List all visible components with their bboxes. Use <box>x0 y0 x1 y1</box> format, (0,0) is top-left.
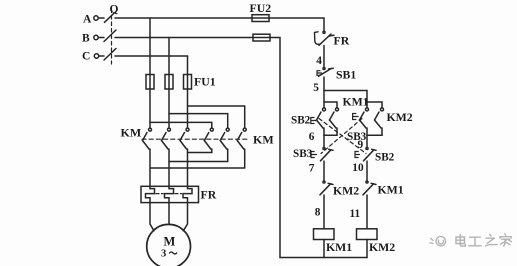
KM banks linkage dashed <box>142 138 249 140</box>
fuse FU2 pole B <box>253 34 270 41</box>
wire phase3 to right bank contact 3 <box>188 106 245 128</box>
FR control contact NC <box>315 31 335 45</box>
wire FR to SB1 <box>323 46 325 68</box>
wire FR to motor line3 <box>183 203 187 231</box>
wire SB1 to node 5 <box>323 77 325 91</box>
wire node6 to SB3 NC <box>323 135 325 147</box>
svg-text:KM: KM <box>253 133 274 147</box>
switch Q linkage dashed <box>111 9 113 64</box>
control rail node5 <box>324 90 367 92</box>
KM1 aux contact NO <box>330 108 339 135</box>
contactor KM left bank contact 2 <box>162 128 171 149</box>
svg-text:KM1: KM1 <box>343 95 369 109</box>
KM2 aux branch tap <box>367 102 382 108</box>
fuse FU1 pole 2 <box>165 75 173 90</box>
wire left bank 2 down <box>168 149 170 186</box>
wire coil KM2 to bottom rail <box>366 240 368 258</box>
svg-text:9: 9 <box>358 139 364 151</box>
right column from rail <box>366 91 368 103</box>
wire drop phase C to FU1 <box>187 56 189 75</box>
svg-text:4: 4 <box>316 55 322 67</box>
wire FU1 pole2 down to KM <box>168 89 170 128</box>
svg-text:A: A <box>83 14 92 26</box>
wire SB3 to node 9 <box>366 128 368 135</box>
wire SB2NC to KM1 NC <box>366 161 368 181</box>
KM2 aux contact NO <box>375 108 384 135</box>
svg-text:SB1: SB1 <box>336 68 356 82</box>
wire phase1 to right bank contact 1 <box>150 122 212 127</box>
wire right contact1 to motor line3 <box>188 149 212 153</box>
wire KM1NC to coil KM2 <box>366 195 368 229</box>
wire FU1 pole3 down to KM <box>187 89 189 128</box>
svg-text:SB3: SB3 <box>293 148 313 160</box>
svg-text:FU2: FU2 <box>250 1 272 15</box>
wire FU2A to control column <box>269 18 324 31</box>
watermark text gong <box>469 237 481 246</box>
watermark text jia <box>500 234 511 246</box>
FR heater element 3 <box>183 186 192 202</box>
interlock KM2 NC contact <box>320 181 333 195</box>
svg-text:3: 3 <box>161 249 166 260</box>
mechanical link SB2 dashed <box>319 119 366 154</box>
wire SB2 to node 6 <box>323 128 325 135</box>
wire right contact2 to motor line2 <box>169 149 228 162</box>
wire phase B horizontal <box>115 37 253 39</box>
node 9 wire <box>367 134 382 136</box>
FR heater linkage dashes <box>156 193 163 195</box>
terminal B <box>82 32 104 44</box>
switch Q blade phase B <box>104 30 116 42</box>
svg-text:8: 8 <box>315 207 321 219</box>
svg-text:FR: FR <box>334 34 350 48</box>
svg-text:11: 11 <box>350 208 361 220</box>
fuse FU2 pole A <box>252 15 269 22</box>
svg-text:SB2: SB2 <box>375 152 395 164</box>
svg-text:6: 6 <box>309 131 315 143</box>
start button SB2 NO <box>311 91 326 129</box>
wire node9 to SB2 NC <box>366 135 368 147</box>
wire FR to motor line1 <box>150 203 154 231</box>
switch Q blade phase C <box>104 49 116 61</box>
wire phase A horizontal <box>115 17 252 19</box>
motor M circle <box>147 224 191 266</box>
svg-text:10: 10 <box>352 162 364 174</box>
bottom rail <box>280 257 367 259</box>
fuse FU1 pole 1 <box>146 75 154 90</box>
wire SB3NC to KM2 NC <box>323 161 325 181</box>
wire FU2B to control return <box>270 38 280 258</box>
svg-text:KM2: KM2 <box>387 110 413 124</box>
svg-text:5: 5 <box>313 82 319 94</box>
stop button SB1 NC <box>317 67 333 76</box>
wire phase2 to right bank contact 2 <box>169 114 228 128</box>
contactor KM left bank contact 3 <box>180 128 189 149</box>
wire right contact3 to motor line1 <box>150 149 245 168</box>
svg-text:FR: FR <box>201 188 217 202</box>
watermark text dian <box>456 235 465 247</box>
watermark logo <box>430 237 446 246</box>
wire left bank 3 down <box>187 149 189 186</box>
watermark text zhi <box>486 234 498 246</box>
terminal C <box>82 50 104 62</box>
button SB3 NC contact <box>311 147 333 160</box>
wire drop phase A to FU1 <box>149 18 151 75</box>
KM1 aux contact branch tap <box>324 102 337 108</box>
mechanical link SB3 dashed <box>321 119 362 154</box>
wire left bank 1 down <box>149 149 151 186</box>
wire FR to motor line2 <box>168 203 170 225</box>
start button SB3 NO <box>353 102 369 128</box>
svg-text:M: M <box>164 235 176 249</box>
terminal A <box>83 14 104 26</box>
thermal relay FR heater box <box>141 186 199 202</box>
svg-text:C: C <box>82 50 90 62</box>
svg-text:KM2: KM2 <box>333 184 359 198</box>
wire drop phase B to FU1 <box>168 38 170 75</box>
FR heater element 2 <box>165 186 174 202</box>
contactor KM right bank contact 1 <box>204 128 213 149</box>
svg-text:KM1: KM1 <box>378 183 404 197</box>
node 6 wire <box>324 134 337 136</box>
FR heater element 1 <box>146 186 155 202</box>
svg-text:7: 7 <box>309 162 315 174</box>
wire coil KM1 to bottom rail <box>323 240 325 258</box>
coil KM2 <box>357 229 378 240</box>
interlock KM1 NC contact <box>363 181 376 195</box>
coil KM1 <box>314 229 335 240</box>
fuse FU1 pole 3 <box>184 75 192 90</box>
svg-text:FU1: FU1 <box>194 75 216 89</box>
contactor KM right bank contact 3 <box>237 128 246 149</box>
svg-text:Q: Q <box>110 4 119 16</box>
switch Q blade phase A <box>105 13 115 22</box>
contactor KM left bank contact 1 <box>143 128 152 149</box>
wire KM2NC to coil KM1 <box>323 195 325 229</box>
button SB2 NC contact <box>355 147 376 160</box>
contactor KM right bank contact 2 <box>220 128 229 149</box>
svg-text:KM: KM <box>121 126 142 140</box>
svg-text:KM2: KM2 <box>369 240 395 254</box>
svg-text:KM1: KM1 <box>326 240 352 254</box>
wire FU1 pole1 down to KM <box>149 89 151 128</box>
svg-text:B: B <box>82 32 90 44</box>
wire phase C horizontal <box>115 55 188 57</box>
svg-text:SB2: SB2 <box>291 115 311 127</box>
